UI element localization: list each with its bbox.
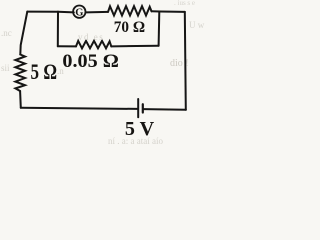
galvanometer G (73, 6, 85, 18)
battery B1 long plate (137, 99, 139, 117)
svg-text:70 Ω: 70 Ω (114, 19, 145, 36)
wire left lower segment (19, 91, 22, 108)
wire between galvanometer and resistor R1 (86, 11, 108, 14)
svg-text:G: G (75, 8, 83, 19)
wire top-left segment (27, 11, 58, 13)
wire bottom-left segment (21, 108, 137, 109)
wire inner loop right side to node B (158, 12, 161, 46)
svg-text:dio !: dio ! (170, 58, 189, 69)
wire inner loop bottom-left segment (58, 45, 76, 47)
svg-text:ní . a: a ataí aío: ní . a: a ataí aío (108, 136, 163, 146)
wire outer right side (185, 12, 186, 110)
resistor R2 5 ohm zigzag (15, 55, 25, 92)
wire between resistor R1 and node B (152, 10, 161, 12)
wire left upper segment (20, 12, 27, 55)
wire inner loop left side from node A (57, 12, 59, 47)
battery B1 short plate (142, 104, 144, 112)
resistor R3 0.05 ohm shunt zigzag (76, 41, 111, 48)
wire top-right segment node B to corner (160, 11, 185, 13)
resistor R1 70 ohm zigzag (108, 6, 152, 15)
wire bottom-right segment (144, 108, 186, 111)
svg-text:. ius s e: . ius s e (174, 0, 195, 7)
svg-text:vd es: vd es (78, 32, 104, 42)
svg-text:5 Ω: 5 Ω (31, 59, 58, 84)
svg-text:sii: sii (1, 63, 10, 73)
wire inner loop bottom-right segment (111, 45, 158, 48)
svg-text:0.05 Ω: 0.05 Ω (62, 52, 118, 72)
svg-text:.nc: .nc (1, 28, 12, 38)
svg-text:U w: U w (189, 20, 205, 30)
wire top between node A and galvanometer (58, 11, 74, 14)
svg-text:.n: .n (57, 66, 64, 76)
